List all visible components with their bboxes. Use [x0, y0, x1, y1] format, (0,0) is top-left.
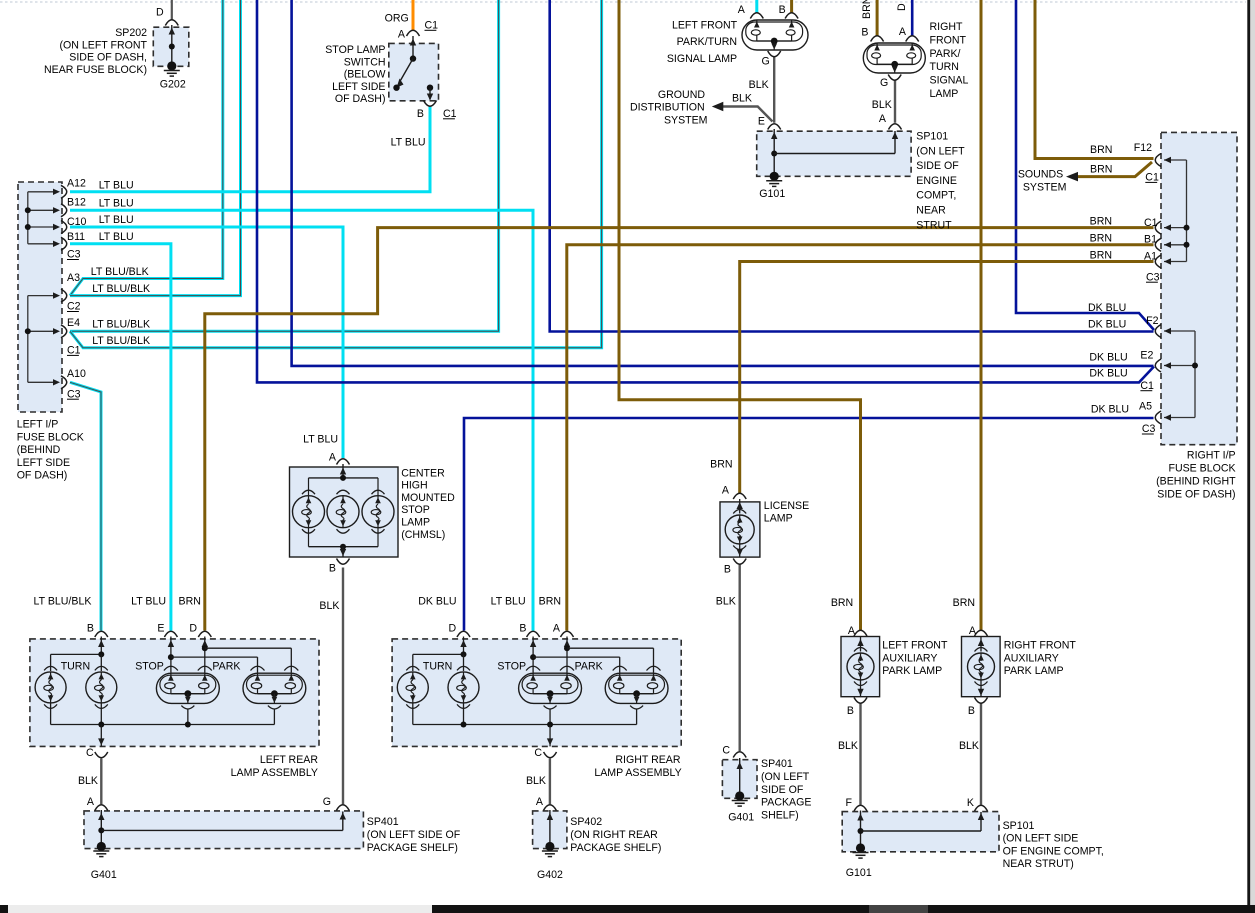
right front aux lamp bulb: [968, 636, 995, 697]
svg-text:LT BLU: LT BLU: [99, 231, 134, 243]
right front park/turn signal lamp: [863, 43, 925, 73]
svg-text:LAMP ASSEMBLY: LAMP ASSEMBLY: [594, 767, 681, 779]
svg-text:F12: F12: [1134, 142, 1152, 154]
wire DK BLU E2 via x257: [257, 0, 1154, 382]
connector A left front lamp: [750, 13, 763, 19]
connector B right front aux lamp: [975, 698, 988, 704]
svg-text:A: A: [329, 451, 337, 463]
svg-text:AUXILIARY: AUXILIARY: [882, 653, 937, 665]
svg-text:B: B: [519, 622, 526, 634]
turn bulb drops: [51, 703, 102, 725]
stop/park socket arcs above stadium: [164, 666, 298, 670]
svg-text:LT BLU/BLK: LT BLU/BLK: [92, 319, 150, 331]
svg-text:PARK: PARK: [575, 660, 603, 672]
right fuse block connectors group 2: [1155, 325, 1161, 425]
splice SP401 box (license): [722, 760, 757, 799]
svg-text:BRN: BRN: [1090, 249, 1112, 261]
svg-text:(ON LEFT SIDE: (ON LEFT SIDE: [1003, 833, 1079, 845]
svg-text:COMPT,: COMPT,: [916, 190, 956, 202]
wire BRN left front lamp B stub: [790, 0, 793, 13]
left fuse block connectors: [61, 185, 67, 388]
connector C SP401 license: [733, 752, 746, 758]
svg-text:LT BLU: LT BLU: [99, 179, 134, 191]
svg-text:RIGHT FRONT: RIGHT FRONT: [1004, 640, 1077, 652]
svg-text:ORG: ORG: [385, 13, 409, 25]
svg-text:A: A: [553, 622, 561, 634]
svg-text:K: K: [967, 797, 974, 809]
wire DK BLU F2 via x549: [550, 0, 1154, 332]
svg-text:LEFT SIDE: LEFT SIDE: [17, 457, 70, 469]
svg-text:BRN: BRN: [861, 0, 873, 19]
right rear lamp labels: [418, 595, 681, 808]
wire ORG stop lamp switch A stub: [412, 0, 415, 31]
CHMSL internal buses: [309, 464, 379, 557]
right front auxiliary park lamp box: [962, 637, 1001, 697]
connector B license lamp: [733, 559, 746, 565]
wire BRN to sounds system: [1077, 162, 1152, 177]
wire E4 LT BLU/BLK: [70, 0, 499, 331]
SP402 labels: [537, 816, 661, 881]
vertical D label: [896, 3, 908, 11]
svg-text:LAMP ASSEMBLY: LAMP ASSEMBLY: [231, 767, 318, 779]
wire DK BLU right front lamp A stub: [911, 0, 914, 36]
wire C2 LT BLU/BLK: [70, 0, 241, 296]
svg-text:LEFT I/P: LEFT I/P: [17, 419, 59, 431]
svg-text:LEFT FRONT: LEFT FRONT: [672, 19, 738, 31]
svg-text:OF DASH): OF DASH): [335, 93, 386, 105]
ground G402: [542, 842, 558, 857]
rear lamp internal wiring: [51, 637, 292, 673]
connector E SP101: [768, 124, 781, 130]
svg-text:STOP: STOP: [401, 504, 430, 516]
connector A SP401: [95, 805, 108, 811]
license lamp box: [720, 502, 760, 557]
svg-text:BLK: BLK: [872, 99, 892, 111]
svg-text:(BEHIND: (BEHIND: [17, 444, 61, 456]
wire BLK left aux lamp B to SP101 F: [859, 704, 861, 805]
rear lamp bottom bus: [413, 709, 637, 746]
svg-text:C1: C1: [1140, 380, 1154, 392]
svg-text:BLK: BLK: [716, 595, 736, 607]
svg-text:A: A: [722, 485, 730, 497]
svg-text:C10: C10: [67, 216, 87, 228]
wire BRN right front lamp B stub: [876, 0, 879, 36]
right I/P fuse block box: [1161, 132, 1237, 444]
svg-text:SP401: SP401: [761, 758, 793, 770]
svg-text:STRUT: STRUT: [916, 219, 952, 231]
svg-text:LT BLU/BLK: LT BLU/BLK: [92, 335, 150, 347]
right fuse block pin labels: [1134, 142, 1160, 435]
svg-text:B1: B1: [1144, 234, 1157, 246]
connector D rear lamp: [198, 631, 211, 637]
turn bulb drops: [413, 703, 464, 725]
svg-text:C1: C1: [67, 345, 81, 357]
connector A rear lamp: [561, 631, 574, 637]
svg-text:ENGINE: ENGINE: [916, 175, 957, 187]
svg-text:PACKAGE SHELF): PACKAGE SHELF): [570, 842, 661, 854]
SP101 bottom internal wires: [857, 811, 984, 849]
svg-text:DK BLU: DK BLU: [418, 595, 456, 607]
ground G101 bottom: [853, 843, 869, 858]
svg-text:A12: A12: [67, 177, 86, 189]
svg-text:(ON LEFT: (ON LEFT: [761, 771, 810, 783]
svg-text:LT BLU: LT BLU: [391, 137, 426, 149]
svg-text:BRN: BRN: [1090, 216, 1112, 228]
right fuse block caption: [1156, 449, 1236, 500]
svg-text:STOP LAMP: STOP LAMP: [325, 44, 385, 56]
svg-text:BLK: BLK: [959, 740, 979, 752]
svg-text:SIDE OF: SIDE OF: [761, 784, 804, 796]
SP401 labels: [91, 796, 461, 881]
svg-text:A5: A5: [1139, 401, 1152, 413]
svg-text:(ON LEFT SIDE OF: (ON LEFT SIDE OF: [367, 829, 461, 841]
svg-text:A: A: [738, 4, 746, 16]
svg-text:LT BLU/BLK: LT BLU/BLK: [34, 595, 92, 607]
svg-text:NEAR FUSE BLOCK): NEAR FUSE BLOCK): [44, 64, 147, 76]
svg-text:C1: C1: [1144, 217, 1158, 229]
svg-text:A3: A3: [67, 272, 80, 284]
svg-text:BRN: BRN: [710, 458, 732, 470]
svg-text:E: E: [157, 622, 164, 634]
svg-text:LAMP: LAMP: [401, 517, 430, 529]
SP402 internal wire: [547, 810, 553, 846]
turn bulb 1: [35, 666, 66, 708]
svg-text:E2: E2: [1140, 350, 1153, 362]
svg-text:BRN: BRN: [1090, 233, 1112, 245]
right fuse block internal bus 1: [1164, 157, 1190, 265]
svg-text:F2: F2: [1146, 315, 1158, 327]
wire BLK CHMSL B to SP401 G: [342, 568, 344, 805]
wire DK BLU E2 via x292: [292, 0, 1154, 366]
svg-text:SIDE OF DASH,: SIDE OF DASH,: [69, 52, 147, 64]
left fuse block pin labels: [67, 177, 87, 400]
svg-text:BLK: BLK: [319, 600, 339, 612]
wire BRN F12: [1035, 0, 1154, 159]
wire LT BLU left front lamp A stub: [755, 0, 758, 13]
turn bulb 1: [397, 666, 428, 708]
connector C rear lamp: [95, 752, 108, 758]
connector A left front aux lamp: [854, 630, 867, 636]
SP202 internal wire: [169, 25, 175, 66]
svg-text:PARK/: PARK/: [930, 48, 961, 60]
arrow to sounds system: [1066, 172, 1078, 182]
wire BLK left rear lamp C to SP401 A: [100, 759, 102, 805]
svg-text:DISTRIBUTION: DISTRIBUTION: [630, 102, 705, 114]
svg-text:G401: G401: [91, 869, 117, 881]
sounds system label: [1018, 168, 1067, 193]
svg-text:C: C: [86, 747, 94, 759]
connector K SP101 bottom: [975, 805, 988, 811]
svg-text:MOUNTED: MOUNTED: [401, 492, 455, 504]
left front auxiliary park lamp box: [841, 637, 880, 697]
connector A CHMSL: [337, 459, 350, 465]
park dual bulb stadium: [243, 673, 306, 709]
wire B11 LT BLU to left rear lamp E: [70, 244, 171, 631]
svg-text:LAMP: LAMP: [764, 512, 793, 524]
left rear lamp labels: [34, 595, 319, 808]
svg-text:(ON LEFT: (ON LEFT: [916, 145, 965, 157]
svg-text:PACKAGE: PACKAGE: [761, 797, 811, 809]
svg-text:SYSTEM: SYSTEM: [1023, 182, 1067, 194]
left front aux lamp bulb: [847, 636, 874, 697]
connector B CHMSL: [337, 559, 350, 565]
svg-text:FUSE BLOCK: FUSE BLOCK: [1168, 462, 1235, 474]
svg-text:C3: C3: [67, 388, 81, 400]
wire B12 LT BLU to right rear lamp B: [70, 210, 533, 630]
SP401 license internal wire: [737, 758, 743, 795]
svg-text:DK BLU: DK BLU: [1089, 368, 1127, 380]
svg-text:SIGNAL: SIGNAL: [930, 75, 969, 87]
splice SP401 box (package shelf): [84, 811, 363, 849]
wire DK BLU A5 to right rear lamp D: [464, 418, 1154, 631]
svg-text:BLK: BLK: [838, 740, 858, 752]
SP401 internal wires: [98, 810, 346, 846]
svg-text:B: B: [861, 26, 868, 38]
svg-text:LT BLU: LT BLU: [99, 214, 134, 226]
svg-text:E4: E4: [67, 317, 80, 329]
bottom scrollbar: [0, 905, 1255, 913]
splice SP101 bottom box: [842, 812, 999, 852]
ground G401: [93, 842, 109, 857]
left front lamp labels: [667, 4, 786, 128]
svg-text:LT BLU: LT BLU: [491, 595, 526, 607]
left I/P fuse block box: [18, 182, 62, 412]
svg-text:LEFT FRONT: LEFT FRONT: [882, 640, 948, 652]
svg-text:C1: C1: [425, 20, 439, 32]
svg-text:OF DASH): OF DASH): [17, 470, 68, 482]
svg-text:B: B: [417, 108, 424, 120]
arrow to ground distribution system: [712, 102, 724, 112]
SP101 bottom labels: [846, 820, 1104, 879]
connector A license lamp: [733, 493, 746, 499]
license lamp bulb: [725, 499, 754, 557]
svg-text:TURN: TURN: [61, 660, 90, 672]
svg-text:B12: B12: [67, 197, 86, 209]
svg-text:G401: G401: [728, 812, 754, 824]
svg-text:HIGH: HIGH: [401, 480, 427, 492]
svg-text:G202: G202: [160, 79, 186, 91]
connector B right front lamp: [871, 36, 884, 42]
svg-text:TURN: TURN: [423, 660, 452, 672]
svg-text:A: A: [879, 113, 887, 125]
right fuse block wire labels: [1088, 144, 1129, 416]
stop lamp switch contacts: [393, 36, 433, 101]
svg-text:SP202: SP202: [115, 27, 147, 39]
svg-text:B: B: [724, 564, 731, 576]
svg-text:G101: G101: [846, 867, 872, 879]
connector A SP101: [889, 124, 902, 130]
svg-text:G: G: [761, 56, 769, 68]
svg-text:PARK/TURN: PARK/TURN: [677, 36, 737, 48]
svg-text:A10: A10: [67, 368, 86, 380]
svg-text:F: F: [846, 797, 853, 809]
wire A10 LT BLU/BLK to left rear lamp B: [70, 382, 101, 630]
right fuse block internal bus 2: [1164, 328, 1198, 421]
svg-text:BRN: BRN: [179, 595, 201, 607]
left fuse block internal bus 1: [25, 189, 60, 247]
svg-text:DK BLU: DK BLU: [1088, 302, 1126, 314]
svg-text:LT BLU/BLK: LT BLU/BLK: [91, 266, 149, 278]
svg-text:NEAR STRUT): NEAR STRUT): [1003, 858, 1074, 870]
svg-text:A: A: [899, 26, 907, 38]
wire C10 LT BLU to CHMSL A: [70, 227, 343, 458]
connector B rear lamp: [95, 631, 108, 637]
right page edge line: [1247, 0, 1250, 905]
svg-text:B: B: [329, 563, 336, 575]
ground distribution system label: [630, 89, 708, 127]
stop dual bulb stadium: [519, 673, 582, 709]
connector A SP402: [543, 805, 556, 811]
SP101 top labels: [759, 131, 965, 232]
svg-text:NEAR: NEAR: [916, 205, 946, 217]
svg-text:SP101: SP101: [1003, 820, 1035, 832]
svg-text:STOP: STOP: [497, 660, 526, 672]
right fuse block connectors group 1: [1155, 154, 1161, 269]
svg-text:SP101: SP101: [916, 131, 948, 143]
svg-text:C3: C3: [1146, 271, 1160, 283]
svg-text:SP402: SP402: [570, 816, 602, 828]
svg-text:OF ENGINE COMPT,: OF ENGINE COMPT,: [1003, 845, 1104, 857]
rear lamp assembly box right: [392, 639, 681, 747]
svg-text:D: D: [896, 3, 908, 11]
wire BRN to right front auxiliary park lamp: [980, 0, 983, 631]
svg-text:(BELOW: (BELOW: [344, 69, 386, 81]
rear lamp bottom bus: [51, 709, 275, 746]
svg-text:FUSE BLOCK: FUSE BLOCK: [17, 431, 84, 443]
wire BRN to left front auxiliary park lamp: [619, 0, 861, 631]
svg-text:A: A: [87, 796, 95, 808]
wire BLK ground distribution tap: [723, 107, 773, 122]
license lamp labels: [710, 458, 809, 607]
svg-text:C3: C3: [1142, 423, 1156, 435]
svg-text:SHELF): SHELF): [761, 809, 799, 821]
svg-text:DK BLU: DK BLU: [1089, 352, 1127, 364]
wire BLK license lamp B to SP401 C: [739, 565, 741, 752]
svg-text:C2: C2: [67, 301, 81, 313]
svg-text:BLK: BLK: [526, 775, 546, 787]
svg-text:PACKAGE SHELF): PACKAGE SHELF): [367, 842, 458, 854]
svg-text:D: D: [189, 622, 197, 634]
wire LT BLU stop lamp switch B drop: [429, 106, 432, 112]
connector D at SP202: [165, 20, 178, 26]
connector D rear lamp: [457, 631, 470, 637]
splice SP402 box: [533, 811, 567, 849]
splice SP202 box: [153, 27, 189, 66]
connector A right front lamp: [906, 36, 919, 42]
svg-text:G101: G101: [759, 188, 785, 200]
ground G202: [164, 61, 180, 76]
svg-text:LT BLU: LT BLU: [99, 198, 134, 210]
stop lamp switch box: [389, 43, 439, 100]
wire C1 LT BLU/BLK: [70, 0, 602, 348]
left fuse block internal bus 2: [25, 292, 60, 385]
svg-text:SYSTEM: SYSTEM: [664, 115, 708, 127]
stop/park socket arcs above stadium: [526, 666, 660, 670]
svg-text:G: G: [323, 796, 331, 808]
left fuse block caption: [17, 419, 84, 482]
top dotted page border: [0, 1, 1246, 3]
svg-text:B: B: [87, 622, 94, 634]
svg-text:SWITCH: SWITCH: [344, 56, 386, 68]
wire DK BLU F2 via x1016: [1016, 0, 1154, 330]
wire BLK right rear lamp C to SP402 A: [549, 759, 551, 805]
svg-text:E: E: [758, 116, 765, 128]
svg-text:BRN: BRN: [1090, 164, 1112, 176]
connector C rear lamp: [544, 752, 557, 758]
svg-text:C: C: [534, 747, 542, 759]
svg-text:SIGNAL LAMP: SIGNAL LAMP: [667, 53, 737, 65]
svg-text:LAMP: LAMP: [930, 88, 959, 100]
svg-text:B: B: [847, 705, 854, 717]
svg-text:TURN: TURN: [930, 61, 959, 73]
svg-text:LEFT REAR: LEFT REAR: [260, 754, 318, 766]
rear lamp internal wiring: [413, 637, 654, 673]
connector G right front lamp: [888, 75, 901, 81]
turn bulb 2: [448, 666, 479, 708]
svg-text:C1: C1: [443, 108, 457, 120]
svg-text:A: A: [969, 625, 977, 637]
svg-text:C: C: [722, 744, 730, 756]
splice SP101 top box: [757, 131, 911, 176]
SP101 top internal wires: [771, 129, 898, 176]
svg-text:C1: C1: [1145, 172, 1159, 184]
wire BLK left front lamp G to SP101 E: [773, 57, 775, 123]
svg-text:RIGHT REAR: RIGHT REAR: [615, 754, 680, 766]
connector B rear lamp: [527, 631, 540, 637]
park dual bulb stadium: [605, 673, 668, 709]
svg-text:GROUND: GROUND: [658, 89, 705, 101]
connector B left front lamp: [785, 13, 798, 19]
wire BRN B1 from right rear lamp A: [567, 245, 1154, 631]
svg-text:(ON LEFT FRONT: (ON LEFT FRONT: [60, 39, 148, 51]
connector B C1 stop lamp switch: [424, 101, 437, 107]
svg-text:RIGHT I/P: RIGHT I/P: [1187, 449, 1236, 461]
svg-text:LT BLU/BLK: LT BLU/BLK: [92, 283, 150, 295]
stop lamp switch labels: [325, 13, 456, 149]
svg-text:B: B: [968, 705, 975, 717]
svg-text:STOP: STOP: [135, 660, 164, 672]
turn bulb 2: [86, 666, 117, 708]
svg-text:D: D: [156, 7, 164, 19]
svg-text:A: A: [536, 796, 544, 808]
svg-text:LT BLU: LT BLU: [131, 595, 166, 607]
svg-text:B: B: [779, 4, 786, 16]
svg-text:BRN: BRN: [831, 597, 853, 609]
rear lamp assembly box left: [30, 639, 319, 747]
svg-text:FRONT: FRONT: [930, 34, 967, 46]
ground G401 license: [732, 791, 748, 806]
wire BRN A1 from license lamp A: [740, 262, 1154, 494]
svg-text:SP401: SP401: [367, 816, 399, 828]
svg-text:G402: G402: [537, 869, 563, 881]
svg-text:DK BLU: DK BLU: [1091, 403, 1129, 415]
svg-text:CENTER: CENTER: [401, 467, 445, 479]
wire A3 LT BLU/BLK: [70, 0, 223, 296]
SP202 labels: [44, 7, 186, 91]
connector A right front aux lamp: [975, 630, 988, 636]
CHMSL bulb 1: [293, 490, 325, 533]
svg-text:PARK: PARK: [212, 660, 240, 672]
svg-text:(BEHIND RIGHT: (BEHIND RIGHT: [1156, 475, 1236, 487]
svg-text:A: A: [398, 29, 406, 41]
svg-text:LEFT SIDE: LEFT SIDE: [332, 81, 385, 93]
svg-text:SIDE OF DASH): SIDE OF DASH): [1157, 488, 1235, 500]
svg-text:BRN: BRN: [953, 597, 975, 609]
svg-text:RIGHT: RIGHT: [930, 21, 963, 33]
left front park/turn signal lamp: [742, 20, 808, 50]
wire D BLK into SP202: [171, 0, 173, 20]
CHMSL bulb 3: [362, 490, 394, 533]
